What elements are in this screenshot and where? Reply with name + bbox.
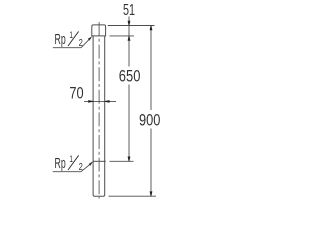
svg-text:1: 1 xyxy=(69,154,73,164)
svg-text:51: 51 xyxy=(123,2,135,19)
svg-text:650: 650 xyxy=(119,67,141,86)
svg-text:900: 900 xyxy=(139,110,160,129)
svg-text:1: 1 xyxy=(69,30,73,40)
svg-text:2: 2 xyxy=(79,162,84,173)
svg-text:Rp: Rp xyxy=(55,32,66,48)
svg-text:2: 2 xyxy=(79,38,84,49)
svg-text:Rp: Rp xyxy=(55,156,66,172)
svg-text:70: 70 xyxy=(69,84,83,103)
